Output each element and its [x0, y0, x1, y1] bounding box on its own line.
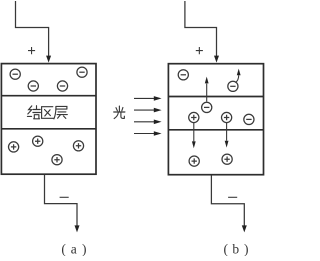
- svg-text:(: (: [61, 241, 66, 256]
- light ray 2: [134, 108, 162, 113]
- hole charge h3 (a): [73, 141, 83, 151]
- wire: negative lead of cell (b): [211, 175, 244, 226]
- electrode box (a): [1, 64, 96, 175]
- hole charge h2 in junction (b): [222, 112, 232, 122]
- junction layer top boundary (b): [168, 96, 263, 98]
- hole charge h3 (b): [189, 156, 199, 166]
- drift arrow of hole h2 (b): [225, 123, 229, 148]
- label 结区层 glyph 层: [54, 106, 67, 119]
- electron charge e4 in junction (b): [244, 114, 254, 124]
- hole charge h2 (a): [33, 136, 43, 146]
- junction layer bottom boundary (a): [1, 128, 96, 130]
- hole charge h1 (a): [9, 142, 19, 152]
- arrowhead into top electrode (a): [46, 56, 51, 63]
- electron charge e3 in junction (b): [202, 102, 212, 112]
- svg-text:): ): [244, 241, 249, 256]
- svg-text:b: b: [232, 241, 239, 256]
- light ray 4: [134, 131, 162, 136]
- label 光 (light): [114, 106, 125, 118]
- wire: negative lead of cell (a): [45, 175, 78, 226]
- label 结区层 (junction layer) glyph 结: [27, 106, 40, 119]
- label 结区层 glyph 区: [42, 107, 54, 119]
- light ray 3: [134, 120, 162, 125]
- electron charge e4 (a): [57, 81, 67, 91]
- svg-text:(: (: [223, 241, 228, 256]
- electron charge e3 (a): [28, 81, 38, 91]
- label - (b): [228, 196, 237, 198]
- electron charge e2 (b) with drift arrow: [228, 81, 238, 91]
- electrode box (b): [168, 64, 263, 175]
- junction layer top boundary (a): [1, 95, 96, 97]
- drift arrow of electron e3 (b): [205, 77, 209, 102]
- svg-text:): ): [82, 241, 87, 256]
- electron charge e1 (b): [178, 70, 188, 80]
- label - (a): [60, 196, 69, 198]
- electron charge e1 (a): [10, 69, 20, 79]
- arrowhead on negative lead (b): [242, 225, 247, 232]
- light ray 1: [134, 96, 162, 101]
- wire: positive lead of cell (b): [185, 1, 217, 56]
- junction layer bottom boundary (b): [168, 129, 263, 131]
- hole charge h1 in junction (b): [189, 112, 199, 122]
- hole charge h4 (a): [52, 155, 62, 165]
- arrowhead on negative lead (a): [75, 225, 80, 232]
- drift arrow of hole h1 (b): [192, 123, 196, 149]
- hole charge h4 (b): [222, 154, 232, 164]
- caption (b): [223, 241, 248, 256]
- wire: positive lead of cell (a): [16, 1, 49, 56]
- drift arrow of electron e2 (b): [235, 69, 240, 83]
- svg-text:a: a: [71, 241, 77, 256]
- label + (b): [196, 47, 203, 54]
- label + (a): [28, 47, 35, 54]
- caption (a): [61, 241, 86, 256]
- arrowhead into top electrode (b): [214, 56, 219, 63]
- electron charge e2 (a): [77, 67, 87, 77]
